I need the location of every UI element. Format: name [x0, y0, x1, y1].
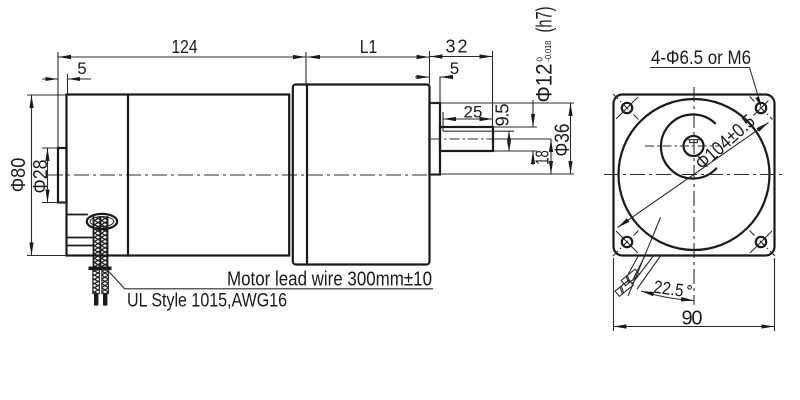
dim 25: [443, 112, 493, 131]
lead wires front view wire A: [627, 255, 646, 281]
endcap ring line 3: [67, 245, 94, 247]
endcap ring line 2: [67, 237, 94, 239]
dim 32: [430, 51, 493, 127]
svg-text:-0.018: -0.018: [544, 40, 553, 62]
hole TR slash: [754, 101, 769, 116]
wire terminal T1: [621, 269, 639, 286]
svg-text:32: 32: [446, 37, 468, 57]
dim 22.5 arc: [641, 291, 694, 301]
dim phi104 diagonal line: [618, 123, 769, 228]
lower wire left: [93, 270, 100, 294]
svg-text:Φ12: Φ12: [532, 64, 557, 103]
hole BL slash: [616, 231, 638, 253]
front square: [614, 95, 775, 256]
shaft hole circle: [684, 136, 704, 156]
shaft flat chord and key notch: [686, 140, 702, 143]
svg-text:Φ28: Φ28: [30, 160, 52, 194]
hole BR diagonal centerline: [747, 228, 775, 256]
front boss (phi 28): [58, 148, 67, 203]
dim phi80: [27, 95, 67, 256]
dim phi36: [430, 103, 575, 174]
motor body: [67, 95, 290, 256]
lower wire right: [102, 270, 109, 294]
gearbox body: [293, 85, 430, 265]
mounting hole BR: [756, 237, 766, 247]
output bearing boss (phi 36): [430, 103, 441, 175]
svg-text:124: 124: [172, 37, 198, 57]
svg-text:25: 25: [464, 103, 483, 122]
dim 5 left: [42, 74, 91, 95]
svg-text:Motor lead wire 300mm±10: Motor lead wire 300mm±10: [227, 269, 432, 291]
svg-text:18: 18: [532, 150, 553, 165]
gearbox internal plate line: [306, 85, 308, 265]
dim phi28: [42, 148, 67, 203]
grommet inner ellipse: [90, 217, 114, 227]
dim phi12 with tolerance: [493, 100, 537, 165]
motor case circle: [619, 99, 770, 250]
cable separator bar: [89, 267, 112, 271]
wire tip left: [94, 294, 98, 306]
svg-text:22.5: 22.5: [652, 277, 684, 301]
wire terminal T2: [615, 280, 633, 297]
dim 90: [614, 258, 775, 331]
braided cable upper: [94, 217, 108, 267]
shaft flat line: [443, 130, 493, 132]
mounting hole BL: [622, 237, 632, 247]
shaft centerline: [431, 138, 512, 140]
hole TL diagonal centerline: [613, 94, 641, 122]
horizontal centerline: [604, 174, 786, 176]
svg-text:9.5: 9.5: [492, 104, 513, 127]
dim 5 right: [415, 77, 452, 104]
svg-text:5: 5: [77, 59, 86, 78]
vertical centerline: [693, 87, 695, 305]
mounting hole TL: [622, 103, 632, 113]
dim L1: [307, 51, 430, 85]
dim 124: [58, 52, 306, 148]
main axis centerline: [48, 174, 429, 176]
endcap ring line 1: [67, 214, 88, 216]
label 4-phi6.5 leader: [650, 68, 760, 102]
label leader motor lead wire: [107, 270, 433, 289]
wire tip right: [103, 294, 107, 306]
mounting hole TR: [756, 103, 766, 113]
svg-text:5: 5: [450, 59, 459, 78]
svg-text:Φ36: Φ36: [551, 124, 574, 157]
gear boss C arc: [661, 114, 716, 178]
output shaft: [440, 127, 493, 151]
svg-text:Φ80: Φ80: [8, 158, 30, 193]
svg-text:L1: L1: [360, 37, 378, 57]
grommet outer ellipse: [87, 214, 117, 229]
hole BR slash: [750, 231, 772, 253]
svg-text:90: 90: [682, 308, 703, 330]
hole BL diagonal centerline: [613, 228, 641, 256]
lead wires front view wire B: [632, 255, 662, 290]
svg-text:4-Φ6.5 or M6: 4-Φ6.5 or M6: [651, 48, 751, 69]
svg-text:(h7): (h7): [532, 7, 557, 33]
hole TR diagonal centerline: [750, 97, 773, 120]
hole TL slash: [616, 97, 638, 119]
shaft horizontal centerline: [645, 145, 719, 147]
dim 18: [495, 139, 551, 174]
motor front endbell joint line: [127, 95, 129, 256]
wire axis reference line 22.5: [628, 218, 661, 297]
svg-text:UL Style 1015,AWG16: UL Style 1015,AWG16: [127, 291, 287, 312]
dim 9.5: [493, 131, 514, 151]
